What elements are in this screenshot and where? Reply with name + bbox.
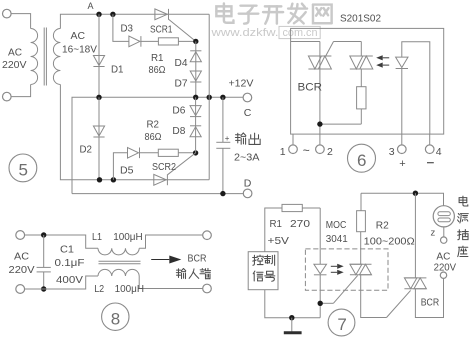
- resistor R1: [282, 204, 320, 211]
- node BCR MT2 junction: [413, 191, 418, 196]
- svg-text:D8: D8: [172, 125, 185, 137]
- arrow to BCR: [151, 259, 169, 261]
- svg-text:MOC: MOC: [326, 219, 347, 231]
- label AC 220V input: [9, 251, 35, 277]
- resistor R1: [141, 38, 196, 45]
- resistor R2: [357, 193, 366, 232]
- photo-triac internal: [350, 42, 373, 87]
- svg-text:BCR: BCR: [421, 296, 440, 308]
- diode D6: [190, 106, 201, 116]
- wire SCR1 output down: [208, 14, 210, 180]
- svg-text:3041: 3041: [326, 233, 348, 245]
- watermark text dianzi-kaifa-wang: [216, 3, 331, 23]
- terminal D: [243, 178, 252, 198]
- transformer T1 primary winding: [31, 29, 38, 85]
- svg-text:3: 3: [389, 146, 395, 158]
- wire top rail to socket: [361, 193, 444, 205]
- wire: [11, 85, 31, 97]
- node bottom rail capacitor: [220, 191, 225, 196]
- resistor internal gate: [320, 87, 366, 124]
- svg-text:100μH: 100μH: [115, 283, 145, 295]
- node A: [88, 1, 102, 17]
- terminal input top: [16, 231, 25, 240]
- diode D4: [190, 50, 201, 52]
- svg-text:220V: 220V: [9, 264, 35, 276]
- wire secondary bottom to SCR2 rail: [60, 85, 99, 180]
- svg-text:D6: D6: [172, 105, 185, 117]
- svg-text:100μH: 100μH: [113, 231, 143, 243]
- terminal output bottom: [203, 284, 212, 293]
- node R2-SCR2 gate junction: [193, 150, 198, 155]
- resistor R2: [140, 149, 196, 156]
- diode D8: [190, 97, 201, 153]
- label R2 86ohm: [145, 119, 162, 144]
- pin 3: [389, 134, 406, 158]
- wire top: [25, 235, 98, 248]
- svg-text:SCR1: SCR1: [150, 23, 173, 35]
- node junction top rail: [110, 12, 115, 17]
- svg-text:D3: D3: [121, 23, 134, 35]
- photo-triac MOC output: [350, 232, 372, 275]
- diode D3: [129, 36, 140, 47]
- svg-text:D2: D2: [80, 143, 93, 155]
- label AC 220V: [434, 250, 457, 273]
- LED optocoupler: [314, 264, 327, 317]
- label AC 220V primary: [2, 47, 27, 71]
- svg-text:R2: R2: [147, 119, 160, 131]
- capacitor C1: [37, 235, 51, 289]
- svg-text:+: +: [225, 134, 230, 143]
- svg-text:7: 7: [337, 315, 346, 334]
- svg-text:BCR: BCR: [298, 81, 323, 93]
- svg-text:L1: L1: [92, 231, 102, 243]
- wire control box to ground rail: [265, 290, 320, 318]
- svg-text:AC: AC: [14, 251, 29, 263]
- label R1 270: [270, 218, 311, 230]
- capacitor C output: [216, 97, 230, 193]
- svg-text:5: 5: [19, 161, 28, 180]
- svg-text:SCR2: SCR2: [152, 161, 176, 173]
- node mid rail capacitor: [220, 95, 225, 100]
- svg-text:400V: 400V: [56, 274, 83, 286]
- svg-text:C1: C1: [60, 243, 74, 255]
- SCR1 thyristor: [155, 9, 196, 42]
- svg-text:D5: D5: [120, 164, 134, 176]
- svg-text:D: D: [244, 178, 252, 190]
- wire BCR gate: [326, 42, 362, 57]
- wire socket to AC terminal: [443, 227, 445, 237]
- wire mid rail +12V: [72, 97, 243, 193]
- node C1 bottom: [41, 286, 46, 291]
- wire MOC output to BCR gate: [361, 275, 411, 318]
- wire BCR MT2: [414, 193, 416, 278]
- node mid rail SCR branch: [207, 95, 212, 100]
- label MOC 3041: [326, 219, 348, 245]
- node D2 bottom: [97, 177, 102, 182]
- svg-text:D7: D7: [175, 78, 188, 90]
- node ground junction: [289, 315, 294, 320]
- terminal A2 bottom-left: [3, 92, 12, 101]
- label R2 100~200ohm: [364, 220, 415, 248]
- IC body S201S02 box: [291, 28, 444, 134]
- control signal box: [248, 252, 278, 290]
- svg-text:100~200Ω: 100~200Ω: [364, 235, 415, 247]
- SCR2 thyristor: [154, 153, 196, 185]
- svg-text:AC: AC: [71, 30, 86, 42]
- label dianyuan-chazuo power socket: [458, 196, 469, 256]
- svg-text:L2: L2: [94, 283, 104, 295]
- wire bottom: [25, 276, 98, 289]
- svg-text:z: z: [431, 228, 436, 239]
- svg-text:S201S02: S201S02: [340, 13, 381, 25]
- svg-text:4: 4: [436, 146, 442, 158]
- circled 7: [328, 309, 355, 336]
- svg-text:270: 270: [290, 218, 310, 230]
- circled 5: [9, 154, 37, 182]
- label L1 100uH: [92, 231, 143, 243]
- node C1 top: [41, 232, 46, 237]
- node D5 branch: [111, 177, 116, 182]
- svg-text:+12V: +12V: [229, 78, 254, 90]
- label - pin4: [427, 162, 434, 164]
- svg-text:~: ~: [303, 144, 310, 158]
- wire bottom rail to D: [72, 193, 243, 195]
- terminal A1 top-left: [3, 9, 12, 18]
- label C1 0.1uF 400V: [55, 243, 85, 286]
- label shuchu output 2~3A: [234, 133, 260, 164]
- svg-text:R1: R1: [270, 218, 283, 230]
- svg-text:C: C: [244, 107, 252, 119]
- wire pin1 to BCR MT: [291, 41, 320, 43]
- wire L1 right: [139, 235, 203, 248]
- svg-text:220V: 220V: [434, 261, 457, 273]
- terminal AC top: [441, 237, 447, 243]
- diode D7: [190, 41, 201, 97]
- svg-text:220V: 220V: [2, 59, 27, 71]
- svg-text:16~18V: 16~18V: [62, 43, 97, 55]
- svg-text:2~3A: 2~3A: [234, 152, 260, 164]
- node LED cathode gate junction: [318, 301, 323, 306]
- ground: [284, 318, 302, 333]
- triac BCR: [404, 277, 426, 279]
- circled 6: [348, 144, 376, 172]
- terminal input bottom: [16, 285, 25, 294]
- wire: [11, 14, 31, 29]
- circled 8: [102, 303, 129, 330]
- svg-text:D4: D4: [175, 57, 188, 69]
- svg-text:BCR: BCR: [188, 253, 207, 265]
- triac BCR internal: [308, 42, 331, 135]
- wire BCR MT1 to AC: [415, 278, 443, 317]
- pin 1: [280, 134, 298, 158]
- power socket symbol: [433, 206, 454, 227]
- wire D5 branch: [113, 153, 127, 180]
- diode D5: [128, 148, 139, 159]
- inductor L2: [98, 269, 139, 276]
- pin 4: [425, 134, 441, 158]
- svg-text:R2: R2: [376, 220, 389, 232]
- svg-text:6: 6: [357, 151, 366, 170]
- terminal AC bottom: [440, 272, 446, 278]
- wire R1 to LED: [319, 208, 321, 264]
- wire SCR2 rail: [100, 179, 210, 181]
- light arrows LED: [331, 264, 344, 275]
- svg-text:+: +: [399, 158, 405, 170]
- label R1 86ohm: [149, 52, 166, 76]
- pin 2: [316, 134, 333, 158]
- svg-text:AC: AC: [8, 47, 22, 59]
- wire D3 branch: [113, 14, 129, 41]
- label BCR input: [176, 253, 210, 279]
- light arrows to photo-triac: [376, 55, 389, 67]
- terminal output top: [203, 231, 212, 240]
- terminal C: [243, 93, 252, 119]
- svg-text:86Ω: 86Ω: [145, 131, 162, 143]
- inductor L1: [98, 248, 139, 255]
- svg-text:+5V: +5V: [268, 235, 290, 247]
- svg-text:D1: D1: [111, 64, 124, 76]
- svg-text:A: A: [88, 1, 94, 11]
- svg-text:www.dzkfw.: www.dzkfw.: [210, 27, 278, 39]
- optocoupler MOC3041 dashed box: [305, 249, 388, 290]
- node gate resistor junction: [317, 121, 322, 126]
- transformer T1 secondary winding: [53, 29, 60, 85]
- svg-text:1: 1: [280, 146, 286, 158]
- svg-text:2: 2: [327, 146, 333, 158]
- node mid rail D1: [96, 95, 101, 100]
- wire L2 right: [139, 276, 203, 289]
- watermark box com.cn: [279, 26, 320, 39]
- svg-text:R1: R1: [151, 52, 164, 64]
- label AC 16~18V secondary: [62, 30, 97, 55]
- svg-text:8: 8: [111, 310, 120, 329]
- node R1-SCR1 gate junction: [193, 39, 198, 44]
- wire MOC triac gate: [320, 275, 358, 303]
- diode D1: [93, 14, 104, 97]
- wire +5V loop: [265, 208, 282, 252]
- svg-text:0.1μF: 0.1μF: [55, 257, 85, 269]
- choke core lines: [99, 261, 141, 264]
- transformer T1 core: [43, 28, 45, 86]
- node mid rail D7: [193, 95, 198, 100]
- label L2 100uH: [94, 283, 144, 295]
- wire secondary top to rail: [60, 14, 209, 28]
- svg-text:86Ω: 86Ω: [149, 64, 166, 76]
- diode D2: [93, 97, 104, 180]
- LED internal: [396, 42, 430, 134]
